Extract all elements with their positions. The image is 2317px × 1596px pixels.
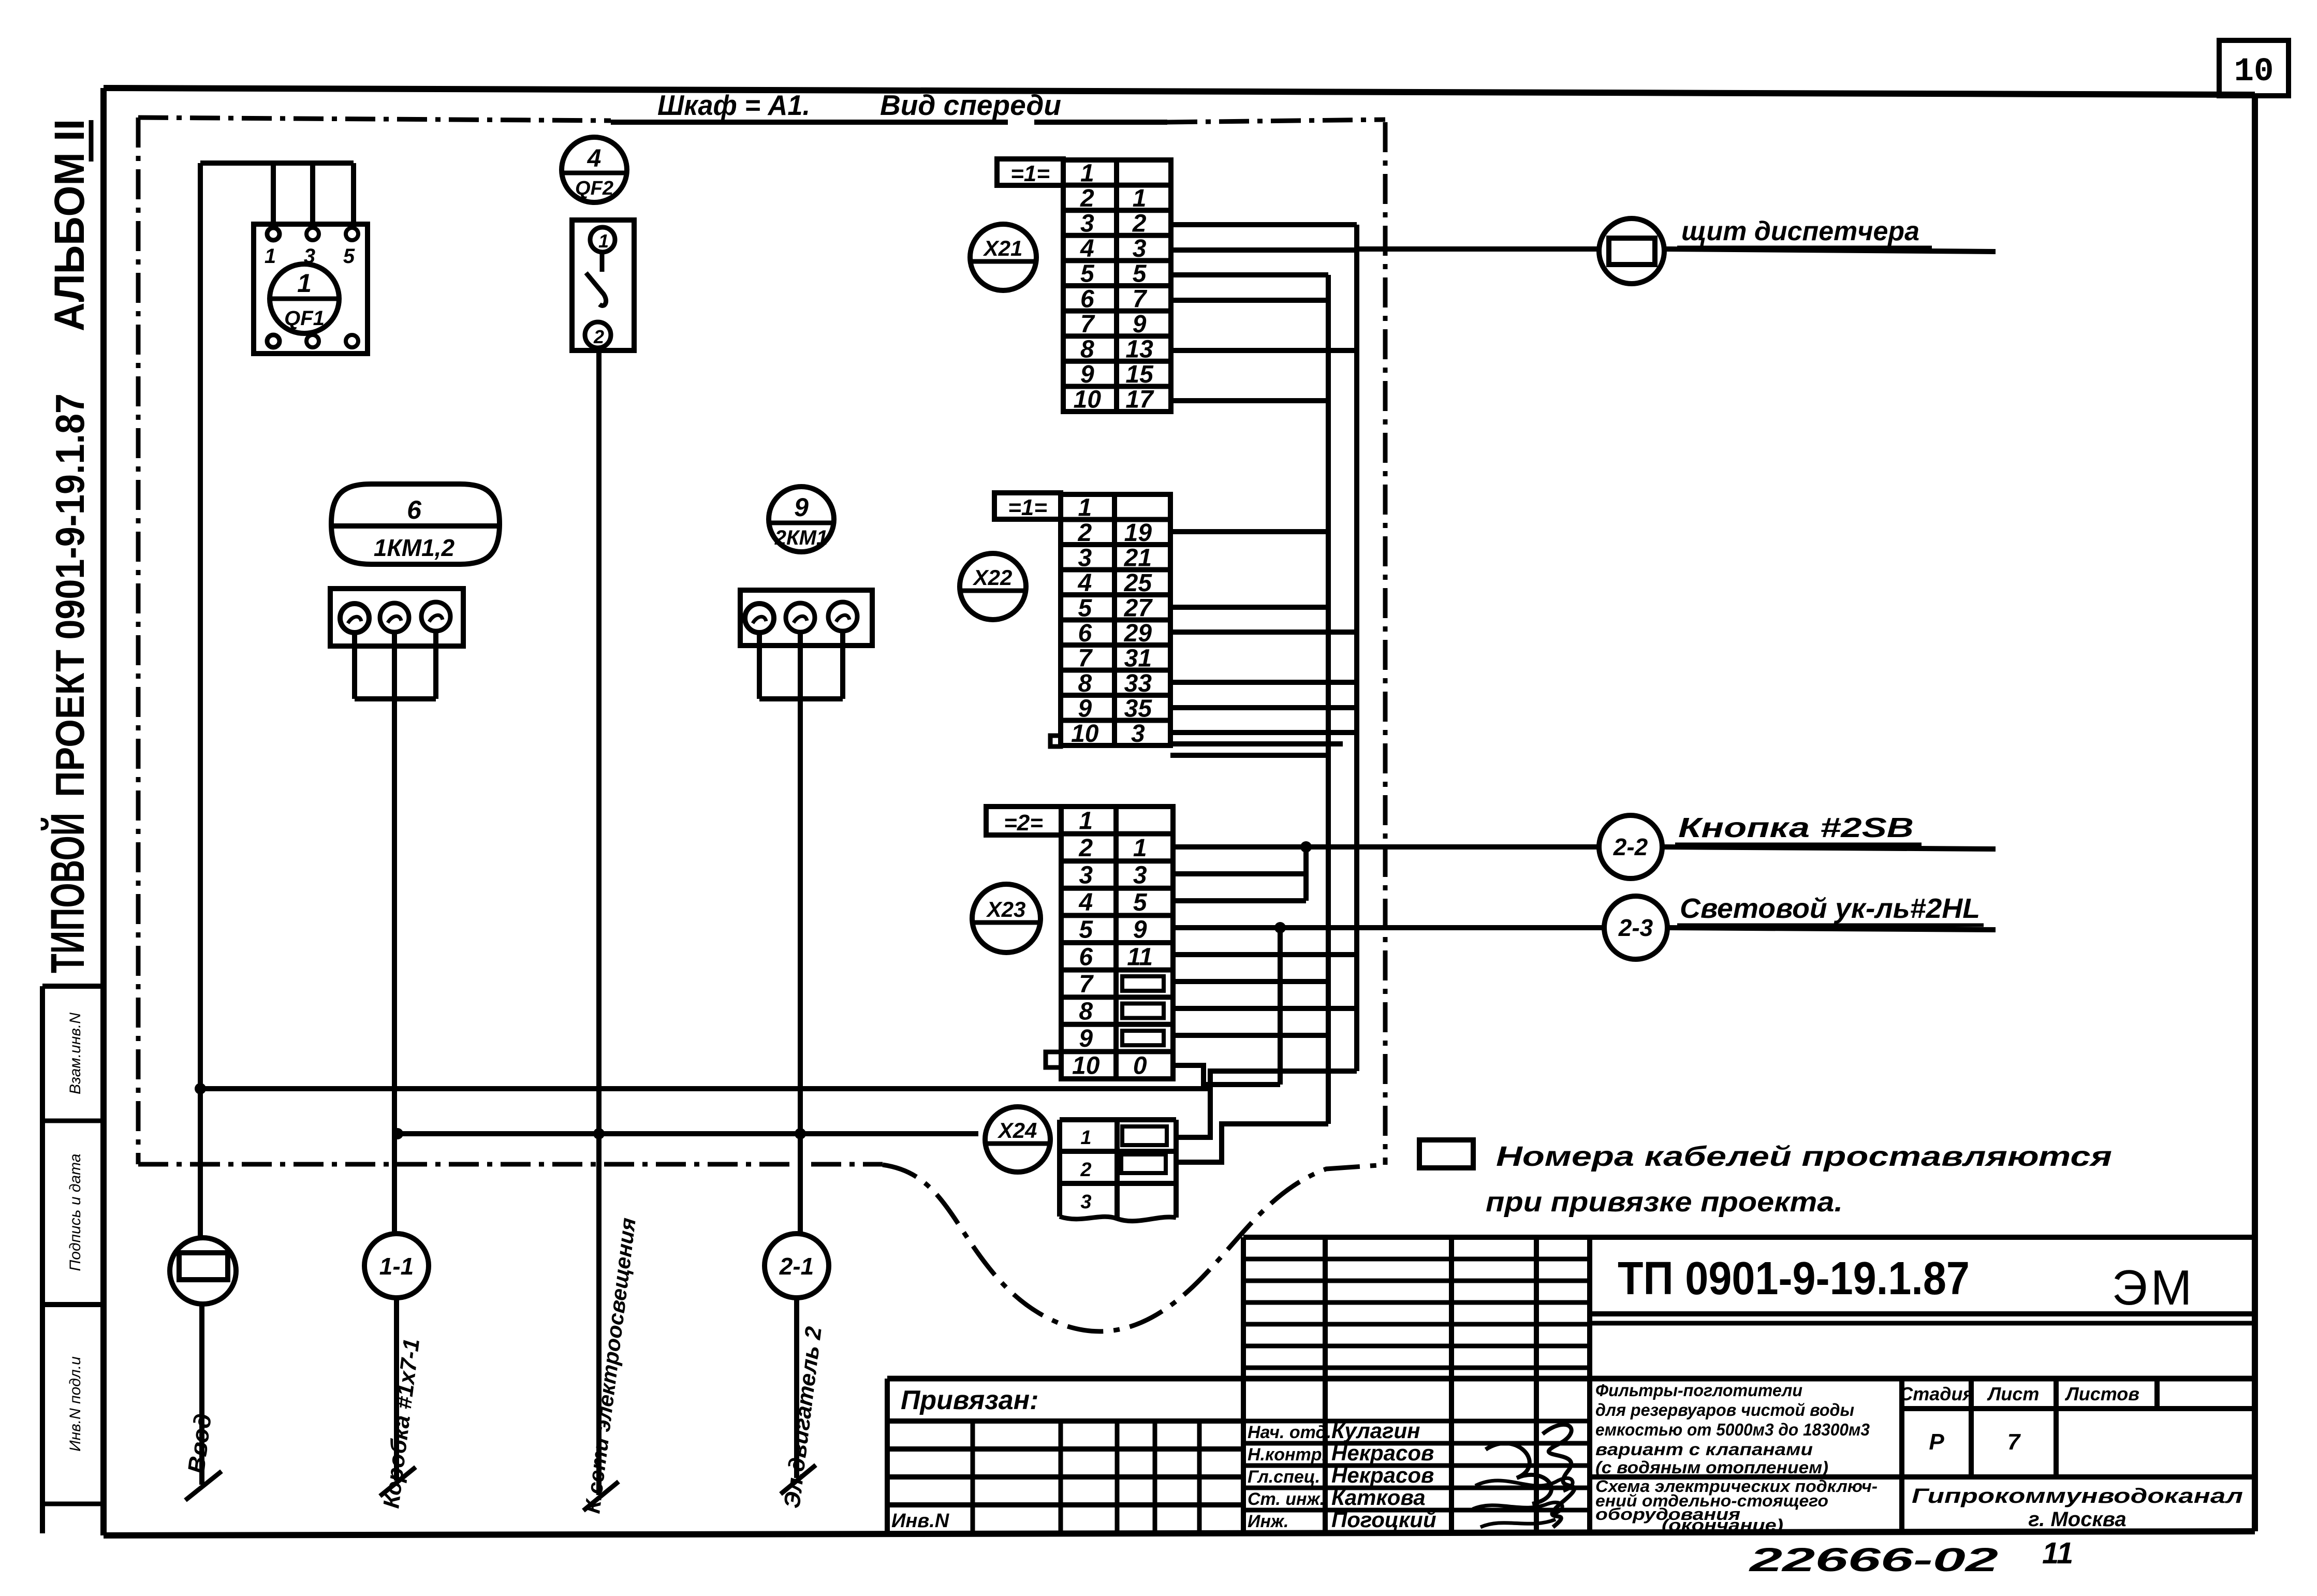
svg-text:ЭМ: ЭМ: [2112, 1260, 2195, 1315]
svg-text:вариант с клапанами: вариант с клапанами: [1595, 1440, 1813, 1459]
wire 1KM U-link right: [433, 631, 438, 699]
svg-text:Взам.инв.N: Взам.инв.N: [67, 1013, 84, 1094]
svg-text:г. Москва: г. Москва: [2028, 1508, 2126, 1531]
svg-text:3: 3: [1133, 235, 1147, 262]
label Световой ук-ль #2HL: [1677, 893, 1984, 925]
svg-text:4: 4: [587, 145, 602, 172]
wire 2KM U-link left: [757, 633, 762, 699]
svg-text:3: 3: [1078, 544, 1092, 572]
svg-text:Инв.N подл.и: Инв.N подл.и: [67, 1356, 84, 1452]
wire X21 row10: [1171, 398, 1328, 403]
svg-text:1: 1: [1080, 159, 1094, 187]
wire 1KM middle down to box 1-1: [392, 632, 397, 1234]
wire 2-3 tail: [1667, 928, 1996, 930]
wire 2KM U-link bottom: [759, 696, 843, 701]
wire X23 row2 to button 2SB: [1173, 844, 1599, 850]
legend cable number box: [1419, 1140, 1473, 1168]
svg-text:Кулагин: Кулагин: [1331, 1418, 1420, 1443]
wire main bus vertical from feeder: [198, 163, 203, 1089]
designator circle X21: [970, 224, 1036, 290]
svg-text:7: 7: [2007, 1429, 2021, 1455]
wire X23 row10 jog: [1173, 1065, 1280, 1085]
svg-text:Подпись и дата: Подпись и дата: [67, 1154, 84, 1271]
svg-text:Некрасов: Некрасов: [1331, 1463, 1434, 1487]
svg-text:10: 10: [1072, 1052, 1100, 1080]
svg-text:Х21: Х21: [983, 236, 1023, 260]
wire bus1 horizontal: [200, 1086, 1210, 1091]
svg-text:8: 8: [1079, 998, 1093, 1026]
svg-text:3: 3: [1080, 1191, 1091, 1213]
svg-text:33: 33: [1124, 670, 1152, 697]
svg-text:Инж.: Инж.: [1248, 1512, 1288, 1531]
svg-text:QF2: QF2: [575, 178, 613, 199]
wire X22 row5: [1170, 605, 1328, 610]
svg-text:35: 35: [1124, 695, 1153, 722]
svg-text:11: 11: [2042, 1536, 2073, 1570]
svg-text:1: 1: [297, 269, 312, 298]
title block organization: [1912, 1485, 2243, 1531]
svg-text:5: 5: [1078, 594, 1092, 622]
terminal block X24 table: [1060, 1120, 1176, 1221]
wire dispatcher tail: [1665, 249, 1996, 252]
svg-text:Н.контр.: Н.контр.: [1248, 1445, 1327, 1465]
switch QF2 body: [572, 220, 634, 350]
svg-text:25: 25: [1124, 569, 1153, 597]
svg-text:13: 13: [1125, 336, 1153, 363]
wire QF2 to lighting feeder: [596, 348, 602, 1134]
svg-text:3: 3: [1131, 720, 1145, 748]
svg-text:ТИПОВОЙ: ТИПОВОЙ: [40, 813, 94, 973]
end tick 2-1: [781, 1465, 816, 1494]
svg-text:10: 10: [1074, 386, 1102, 414]
svg-text:Некрасов: Некрасов: [1331, 1441, 1434, 1465]
wire X24 box2 link: [1176, 1124, 1328, 1162]
junction node X23 row2: [1300, 841, 1312, 853]
svg-text:10: 10: [2234, 53, 2274, 91]
wire X23 row6: [1173, 952, 1357, 957]
wire X23 row5 to lamp 2HL: [1173, 925, 1604, 930]
svg-text:Р: Р: [1929, 1429, 1944, 1455]
wire branch Va: [1303, 847, 1309, 901]
svg-text:Шкаф = А1.: Шкаф = А1.: [657, 89, 810, 121]
svg-text:Ст. инж.: Ст. инж.: [1248, 1489, 1325, 1509]
svg-text:=1=: =1=: [1010, 161, 1050, 186]
svg-text:(окончание): (окончание): [1662, 1516, 1783, 1534]
svg-text:9: 9: [794, 493, 809, 522]
wire branch Vb: [1278, 928, 1283, 1085]
svg-text:4: 4: [1080, 235, 1094, 262]
svg-text:7: 7: [1078, 645, 1093, 672]
node circle 2-3: [1604, 896, 1667, 959]
svg-text:емкостью от 5000м3 до 18300м3: емкостью от 5000м3 до 18300м3: [1595, 1420, 1870, 1439]
svg-text:Каткова: Каткова: [1331, 1485, 1426, 1510]
label щит диспетчера: [1677, 216, 1932, 247]
svg-text:19: 19: [1124, 519, 1152, 547]
cabinet A1 outline dash-dot bottom: [138, 1162, 883, 1167]
svg-text:8: 8: [1080, 336, 1094, 363]
svg-text:Стадия: Стадия: [1899, 1383, 1973, 1404]
contactor designator 1KM1,2: [331, 484, 500, 564]
svg-text:Погоцкий: Погоцкий: [1331, 1507, 1436, 1532]
wire X21 row5: [1171, 272, 1328, 277]
svg-text:QF1: QF1: [284, 307, 325, 330]
svg-text:31: 31: [1124, 645, 1152, 672]
svg-text:5: 5: [1080, 260, 1095, 288]
svg-text:4: 4: [1077, 569, 1092, 597]
svg-text:1: 1: [1080, 1127, 1091, 1149]
svg-text:Привязан:: Привязан:: [901, 1385, 1038, 1415]
svg-text:Х22: Х22: [973, 565, 1013, 590]
wire riser V2: [1354, 225, 1359, 1071]
terminal box of 1KM: [330, 589, 463, 646]
svg-text:Кнопка #2SB: Кнопка #2SB: [1678, 812, 1914, 843]
svg-text:3: 3: [1079, 862, 1093, 889]
designator circle X22: [960, 553, 1026, 620]
wire X21 row8: [1171, 348, 1357, 353]
node circle 1-1: [364, 1234, 429, 1298]
svg-text:9: 9: [1079, 1025, 1093, 1052]
svg-text:27: 27: [1124, 594, 1153, 622]
svg-text:2-3: 2-3: [1618, 914, 1653, 941]
wire X23 row7: [1173, 979, 1328, 984]
wire drop to QF1 pin 5: [351, 163, 356, 228]
junction node bus2 at 1-1 wire: [392, 1128, 403, 1139]
svg-text:Гипрокоммунводоканал: Гипрокоммунводоканал: [1912, 1485, 2243, 1507]
svg-text:6: 6: [1078, 620, 1092, 647]
wire 2-1 tail: [794, 1298, 799, 1478]
sheet number box 10: [2219, 40, 2289, 96]
wire X22 row8: [1170, 680, 1357, 685]
svg-text:17: 17: [1125, 386, 1154, 414]
designator circle QF2: [562, 137, 627, 202]
junction node bus2 at lighting wire: [593, 1128, 605, 1139]
wire X22 row6: [1170, 629, 1357, 635]
wire X24 box1 link: [1176, 1071, 1357, 1137]
wire top feeder horizontal: [200, 160, 354, 166]
terminal box of 2KM: [740, 590, 872, 646]
wire X23 row3: [1173, 871, 1306, 876]
cabinet A1 outline curved cutout: [883, 1165, 1385, 1331]
terminal block X22 header =1=: [994, 493, 1061, 520]
title block grid: [887, 1237, 2255, 1532]
wire Ввод tail: [199, 1304, 204, 1485]
svg-text:6: 6: [1080, 285, 1094, 313]
svg-text:2: 2: [593, 326, 604, 347]
circuit breaker QF1: [254, 224, 368, 354]
svg-text:8: 8: [1078, 670, 1092, 697]
svg-text:3: 3: [1133, 862, 1147, 889]
svg-text:22666-02: 22666-02: [1749, 1541, 1998, 1578]
contactor designator 2KM1: [769, 487, 834, 552]
wire X22 bundle b: [1170, 753, 1328, 758]
svg-text:Инв.N: Инв.N: [891, 1510, 950, 1532]
svg-text:15: 15: [1125, 361, 1154, 388]
svg-text:9: 9: [1080, 361, 1094, 388]
svg-text:2: 2: [1077, 519, 1092, 547]
cable marker circle dispatcher: [1599, 218, 1664, 284]
svg-text:7: 7: [1079, 971, 1094, 998]
wire X21 row4: [1171, 247, 1357, 253]
junction node X23 row5: [1274, 922, 1286, 933]
svg-text:1: 1: [1133, 185, 1147, 212]
wire X22 row2: [1170, 529, 1328, 534]
svg-text:2: 2: [1132, 210, 1147, 238]
svg-text:1: 1: [1133, 834, 1147, 862]
node circle 2-1: [765, 1234, 829, 1298]
svg-text:0: 0: [1133, 1052, 1147, 1080]
svg-text:1: 1: [265, 245, 276, 268]
node circle 2-2: [1599, 815, 1662, 878]
wire 1KM U-link bottom: [355, 696, 436, 701]
wire drop to QF1 pin 1: [271, 163, 276, 228]
svg-text:6: 6: [1079, 943, 1093, 971]
svg-text:Световой ук-ль#2HL: Световой ук-ль#2HL: [1680, 893, 1980, 924]
svg-text:9: 9: [1078, 695, 1092, 722]
wire X21 row3: [1171, 222, 1357, 227]
title block object description: [1595, 1381, 1870, 1477]
end tick lighting: [583, 1482, 619, 1511]
svg-text:5: 5: [1133, 260, 1147, 288]
title block sheet description: [1595, 1477, 1878, 1534]
svg-text:Фильтры-поглотители: Фильтры-поглотители: [1595, 1381, 1802, 1400]
wire drop to QF1 pin 3: [310, 163, 315, 228]
cabinet A1 outline dash-dot right: [1383, 122, 1388, 1165]
title block stage cells: [1899, 1383, 2139, 1455]
terminal block X23 table: [1046, 807, 1173, 1080]
svg-text:=2=: =2=: [1004, 810, 1043, 836]
svg-text:2: 2: [1080, 185, 1094, 212]
svg-text:9: 9: [1133, 311, 1147, 338]
svg-text:7: 7: [1080, 311, 1095, 338]
svg-text:щит диспетчера: щит диспетчера: [1681, 216, 1919, 246]
wire X23 row9: [1173, 1033, 1328, 1038]
wire X23 row8: [1173, 1006, 1357, 1011]
svg-text:Х24: Х24: [998, 1118, 1037, 1143]
svg-text:5: 5: [1079, 916, 1093, 944]
wire lighting tail: [596, 1134, 602, 1495]
wire X21 row6: [1171, 298, 1328, 303]
designator circle X24: [985, 1107, 1050, 1172]
end tick Ввод: [185, 1471, 222, 1500]
svg-text:Номера кабелей проставляются: Номера кабелей проставляются: [1496, 1141, 2112, 1172]
wire 2-2 tail: [1662, 847, 1996, 849]
left attribute strip boxes: [42, 986, 104, 1533]
cable marker circle Ввод: [170, 1089, 236, 1304]
wire 1KM U-link left: [352, 633, 357, 699]
svg-text:1: 1: [1079, 807, 1093, 834]
svg-text:ТП 0901-9-19.1.87: ТП 0901-9-19.1.87: [1618, 1253, 1970, 1305]
svg-text:для резервуаров чистой воды: для резервуаров чистой воды: [1595, 1400, 1854, 1419]
svg-text:2-2: 2-2: [1613, 833, 1648, 860]
end tick 1-1: [380, 1467, 416, 1496]
svg-text:Листов: Листов: [2064, 1383, 2139, 1404]
wire X22 row9: [1170, 705, 1357, 710]
svg-text:10: 10: [1071, 720, 1099, 748]
junction node bus1 left corner: [195, 1083, 206, 1094]
wire X22 bundle a: [1170, 741, 1343, 746]
svg-text:=1=: =1=: [1008, 495, 1047, 520]
terminal block X21 header =1=: [997, 159, 1063, 186]
svg-text:1: 1: [1078, 494, 1092, 521]
svg-text:5: 5: [343, 245, 355, 268]
terminal block X21 table: [1063, 159, 1171, 413]
svg-text:2: 2: [1078, 834, 1093, 862]
wire X23 row4: [1173, 898, 1306, 903]
drawing title Шкаф = А1. Вид спереди: [611, 89, 1167, 122]
svg-text:11: 11: [1127, 943, 1153, 971]
wire to dispatcher board: [1357, 246, 1599, 252]
svg-text:9: 9: [1133, 916, 1147, 944]
svg-text:1: 1: [598, 230, 609, 252]
title block signatures: [1248, 1418, 1574, 1532]
svg-text:6: 6: [407, 495, 422, 524]
svg-text:3: 3: [1080, 210, 1094, 238]
cabinet A1 outline dash-dot top: [138, 118, 611, 121]
cabinet A1 outline dash-dot left: [136, 118, 141, 1164]
svg-text:21: 21: [1124, 544, 1152, 572]
designator circle X23: [972, 884, 1040, 953]
wire riser V1: [1326, 275, 1331, 1124]
junction node bus2 at 2-1 wire: [795, 1128, 806, 1139]
svg-text:29: 29: [1124, 620, 1152, 647]
svg-text:Х23: Х23: [986, 897, 1026, 921]
label Кнопка #2SB: [1675, 812, 1922, 844]
svg-text:Гл.спец.: Гл.спец.: [1248, 1467, 1320, 1487]
terminal block X23 header =2=: [986, 807, 1061, 836]
wire X21 row3 step down: [1354, 225, 1359, 249]
wire bus2 horizontal: [398, 1131, 978, 1136]
svg-text:7: 7: [1133, 285, 1148, 313]
svg-text:АЛЬБОМ II: АЛЬБОМ II: [46, 119, 93, 331]
svg-text:2: 2: [1080, 1159, 1091, 1181]
svg-text:(с водяным отоплением): (с водяным отоплением): [1595, 1458, 1828, 1477]
wire 2KM U-link right: [840, 631, 845, 699]
svg-text:при привязке проекта.: при привязке проекта.: [1486, 1187, 1843, 1218]
svg-text:5: 5: [1133, 889, 1148, 916]
svg-text:Нач. отд.: Нач. отд.: [1248, 1423, 1331, 1442]
wire X22 row10: [1170, 730, 1357, 735]
svg-text:1-1: 1-1: [379, 1253, 414, 1280]
wire 2KM middle down to motor: [798, 632, 803, 1234]
wire 1-1 tail: [394, 1298, 399, 1481]
terminal block X22 table: [1050, 494, 1170, 748]
svg-text:2-1: 2-1: [779, 1253, 814, 1280]
svg-text:Лист: Лист: [1987, 1383, 2040, 1404]
svg-text:1КМ1,2: 1КМ1,2: [374, 534, 455, 561]
svg-text:4: 4: [1078, 889, 1093, 916]
svg-text:ПРОЕКТ 0901-9-19.1.87: ПРОЕКТ 0901-9-19.1.87: [47, 393, 93, 797]
svg-text:2КМ1: 2КМ1: [774, 526, 828, 549]
svg-text:Вид спереди: Вид спереди: [880, 89, 1061, 121]
